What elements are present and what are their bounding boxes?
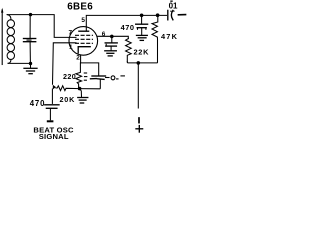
- svg-text:6: 6: [102, 31, 106, 38]
- svg-text:20K: 20K: [60, 95, 76, 104]
- svg-text:5: 5: [81, 17, 85, 24]
- svg-text:220: 220: [63, 72, 76, 81]
- svg-text:2: 2: [76, 55, 80, 62]
- svg-text:01: 01: [169, 1, 178, 10]
- svg-text:47K: 47K: [161, 32, 178, 41]
- svg-text:470: 470: [121, 23, 135, 32]
- svg-text:6BE6: 6BE6: [67, 2, 93, 13]
- svg-text:SIGNAL: SIGNAL: [39, 132, 69, 141]
- svg-text:470: 470: [30, 99, 45, 108]
- svg-text:7: 7: [69, 30, 73, 37]
- svg-text:1: 1: [69, 44, 73, 51]
- svg-text:22K: 22K: [134, 48, 150, 57]
